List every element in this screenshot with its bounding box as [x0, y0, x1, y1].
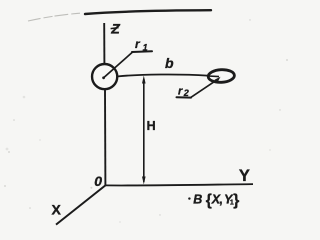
svg-text:}: }	[233, 192, 239, 209]
svg-text:X: X	[52, 202, 62, 218]
svg-text:H: H	[147, 119, 156, 133]
svg-text:0: 0	[94, 173, 102, 189]
svg-text:,: ,	[219, 192, 222, 206]
svg-text:Y: Y	[239, 167, 250, 185]
svg-text:B: B	[193, 192, 202, 206]
svg-text:b: b	[165, 55, 174, 71]
svg-text:r: r	[178, 85, 183, 97]
